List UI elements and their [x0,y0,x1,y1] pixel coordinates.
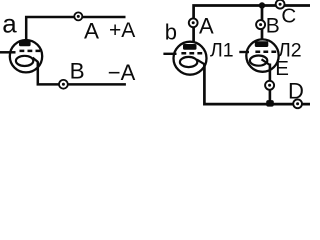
terminal A (circuit a) [74,12,82,20]
svg-text:B: B [70,58,85,83]
wire: grid lead of L1 [163,53,176,55]
wire: anode riser and top wire (circuit a) [26,17,125,41]
tube L2 grid (dashed) [255,51,277,54]
wire: L2 cathode lead down to bottom bus [269,64,272,105]
tube V1 (circuit a) [0,40,42,72]
tube L2 [239,39,278,71]
junction: L2 cathode lead joins bottom bus [266,100,274,107]
svg-text:B: B [266,14,280,37]
wire: V1 cathode connector [33,58,38,62]
svg-text:+A: +A [109,19,135,42]
svg-text:A: A [199,13,214,38]
tube L2 anode plate [255,41,268,47]
terminal E [265,81,274,90]
tube L2 cathode (filament loop) [250,56,267,66]
wire: L1 cathode lead and bottom bus (circuit b) [204,64,310,105]
svg-text:D: D [288,78,304,103]
terminal C [276,0,285,9]
wire: grid lead of L2 [239,51,249,53]
tube V1 cathode (filament loop) [16,56,33,66]
terminal A (circuit b) [189,18,198,27]
terminal D [293,99,302,108]
wire: V1 cathode lead and bottom wire (circuit a) [38,62,126,85]
tube L1 anode plate [183,44,197,50]
svg-text:−A: −A [108,60,136,85]
svg-text:C: C [281,5,296,28]
wire: L1 cathode connector [197,60,205,65]
tube L1 grid (dashed) [181,52,205,55]
tube L1 [163,42,206,75]
terminal B (circuit a) [59,80,68,89]
tube V1 anode plate [19,41,31,47]
junction: L2 anode riser joins top bus [259,2,265,8]
wire: grid lead of V1 [0,51,16,54]
tube L1 cathode (filament loop) [180,57,197,67]
svg-text:E: E [275,57,289,80]
wire: riser to tube L2 anode (circuit b) [261,6,264,40]
svg-text:a: a [2,9,17,39]
tube V1 grid (dashed) [20,50,42,53]
terminal B (circuit b) [256,20,265,29]
wire: top bus with riser to tube L1 anode (circuit b) [194,6,310,43]
svg-text:Л1: Л1 [210,40,234,62]
svg-text:A: A [84,19,99,44]
svg-text:b: b [165,19,177,44]
tube V1 envelope [10,40,42,72]
tube L2 envelope [246,39,278,71]
tube L1 envelope [174,42,207,75]
wire: L2 cathode connector [262,59,270,65]
